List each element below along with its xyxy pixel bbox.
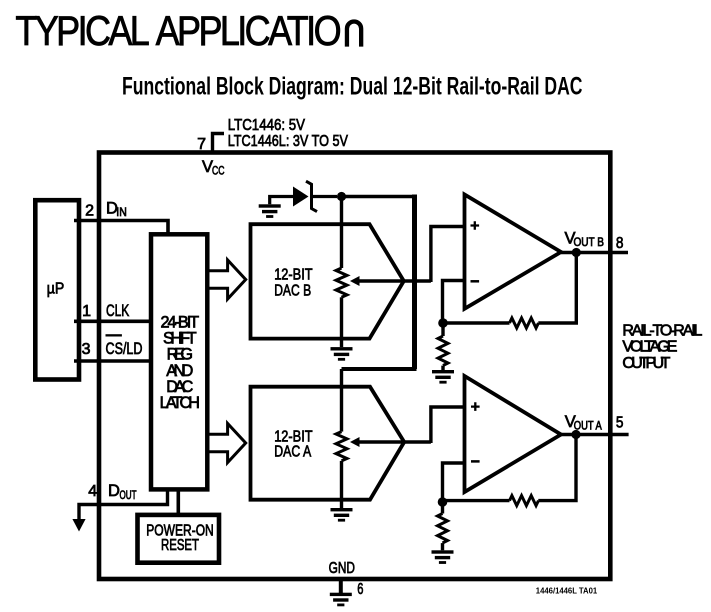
wire op-amp A minus input [443, 463, 465, 502]
svg-text:4: 4 [88, 483, 97, 500]
svg-text:8: 8 [616, 235, 624, 252]
svg-text:Functional Block Diagram: Dual: Functional Block Diagram: Dual 12-Bit Ra… [122, 72, 583, 100]
svg-text:6: 6 [357, 581, 363, 598]
svg-text:DAC A: DAC A [274, 444, 311, 461]
wire feedback A [445, 435, 576, 501]
wire VREF to bypass [342, 195, 418, 198]
node VOUT B [572, 248, 581, 257]
wire pot B to ground [340, 297, 343, 347]
svg-text:RAIL-TO-RAIL: RAIL-TO-RAIL [622, 323, 702, 340]
svg-text:RESET: RESET [161, 537, 199, 554]
wire op-amp A plus input [431, 407, 464, 443]
microprocessor block [35, 200, 79, 379]
node VCC [202, 158, 225, 178]
shift register block U1 [151, 234, 207, 489]
ground resistor A [432, 550, 454, 564]
svg-text:D: D [108, 482, 120, 500]
svg-text:LTC1446: 5V: LTC1446: 5V [228, 117, 306, 134]
wire feedback B [445, 253, 576, 324]
svg-text:LTC1446L: 3V TO 5V: LTC1446L: 3V TO 5V [228, 133, 349, 150]
svg-text:OUT: OUT [120, 490, 137, 502]
title TYPICAL APPLICATION [15, 8, 361, 54]
wire zener anode [270, 197, 294, 205]
ground pot B [331, 347, 353, 361]
rail-to-rail output note [622, 323, 702, 373]
wiper arrow A [350, 437, 360, 447]
resistor feedback A [510, 496, 539, 506]
svg-text:7: 7 [197, 136, 206, 153]
svg-text:TYPICAL APPLICATIO: TYPICAL APPLICATIO [15, 8, 340, 54]
svg-text:5: 5 [616, 415, 624, 432]
node A [438, 497, 448, 507]
chip border [99, 153, 610, 580]
arrow DOUT down [72, 519, 85, 532]
wire output B [561, 251, 628, 254]
wire CS/LD [74, 359, 151, 363]
svg-text:CC: CC [212, 165, 225, 177]
svg-text:1446/1446L TA01: 1446/1446L TA01 [536, 586, 598, 596]
op-amp A [465, 376, 562, 492]
wire POR [177, 489, 181, 515]
wire CLK [74, 319, 151, 323]
svg-text:3: 3 [82, 341, 91, 358]
wire VREF to pot B [340, 197, 343, 269]
zener ground [259, 204, 281, 218]
node DIN [106, 199, 127, 219]
wire op-amp B minus input [443, 281, 465, 324]
svg-text:CLK: CLK [106, 302, 129, 320]
DAC B block [251, 224, 404, 338]
wire DOUT [79, 489, 168, 520]
node VOUT A [571, 430, 580, 439]
bus arrow to DAC A [208, 424, 246, 463]
ground pin stem [339, 581, 343, 593]
resistor to ground A [438, 514, 448, 544]
svg-text:1: 1 [82, 303, 91, 320]
wire wiper A [358, 440, 431, 443]
svg-text:CS/LD: CS/LD [106, 340, 143, 358]
svg-text:µP: µP [47, 281, 65, 298]
wire bypass vertical [412, 195, 417, 370]
pin 7 VCC wire [213, 134, 225, 154]
wire bypass bottom [342, 367, 417, 371]
DAC A block [251, 387, 405, 500]
svg-text:OUTPUT: OUTPUT [622, 355, 670, 372]
svg-text:OUT A: OUT A [574, 421, 602, 433]
bus arrow to DAC B [208, 260, 246, 299]
wire node B down [441, 323, 444, 336]
ground pin 6 symbol [330, 593, 352, 607]
potentiometer B [336, 268, 347, 297]
ground resistor B [432, 370, 454, 384]
wire op-amp B plus input [431, 227, 464, 283]
svg-text:12-BIT: 12-BIT [274, 267, 313, 284]
wire wiper B [358, 279, 431, 282]
wire output A [561, 433, 629, 436]
ground pot A [331, 508, 353, 522]
svg-text:OUT B: OUT B [574, 237, 605, 249]
wire DIN [74, 221, 168, 235]
wire pot A to ground [340, 461, 343, 508]
resistor to ground B [438, 336, 448, 366]
wire node A down [441, 502, 444, 514]
node DOUT [108, 482, 137, 502]
potentiometer A [336, 432, 347, 461]
svg-text:LATCH: LATCH [160, 394, 200, 412]
wiper arrow B [350, 276, 360, 286]
zener diode D1 [293, 187, 309, 207]
node B [438, 318, 448, 328]
svg-text:VOLTAGE: VOLTAGE [622, 339, 677, 356]
resistor feedback B [510, 318, 539, 328]
svg-text:IN: IN [116, 207, 127, 219]
svg-text:GND: GND [329, 560, 355, 577]
node VREF junction [337, 192, 346, 201]
op-amp B [465, 195, 562, 309]
svg-text:DAC B: DAC B [274, 283, 311, 300]
power-on reset block [138, 515, 220, 563]
wire to DAC A pot [340, 369, 343, 432]
svg-text:2: 2 [85, 202, 94, 219]
